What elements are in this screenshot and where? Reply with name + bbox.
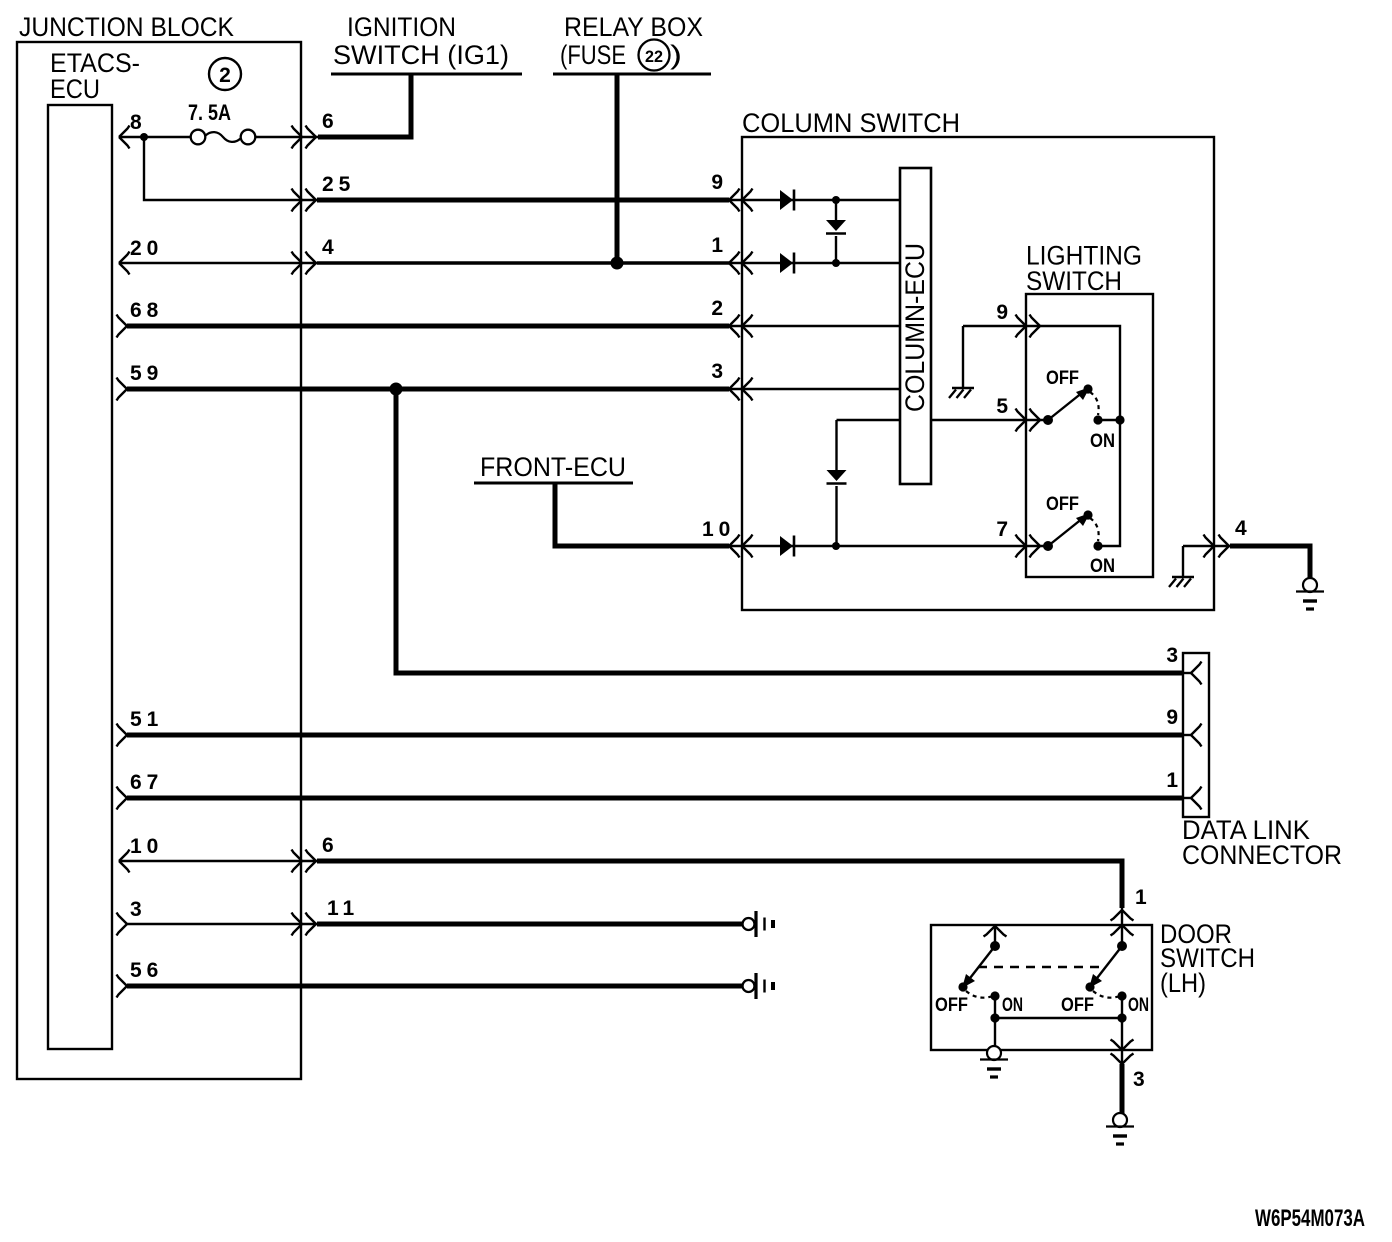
diode D5 vertical branch [835, 420, 837, 470]
wire 25 to column switch [317, 198, 729, 203]
pin 68 chevron [117, 315, 128, 338]
wire 67 to data link 1 [127, 796, 1183, 801]
svg-text:W6P54M073A: W6P54M073A [1255, 1205, 1365, 1232]
svg-text:9: 9 [711, 171, 723, 194]
diode D1 [780, 190, 793, 210]
svg-text:ON: ON [1128, 995, 1149, 1016]
wire 51 to data link 9 [127, 733, 1183, 738]
wire 59 branch down to data link 3 [396, 389, 1183, 673]
ground hatch g2 [1182, 546, 1184, 577]
node dsl [994, 996, 996, 1018]
svg-text:8: 8 [130, 111, 142, 134]
svg-text:SWITCH (IG1): SWITCH (IG1) [333, 40, 509, 70]
junction relay/wire4 [611, 257, 624, 270]
pin 25 chevrons [292, 189, 303, 212]
COLUMN-ECU box [900, 168, 931, 484]
pin 9 cs chevrons [729, 189, 740, 212]
svg-text:): ) [670, 40, 682, 70]
svg-text:OFF: OFF [1046, 368, 1079, 389]
svg-text:OFF: OFF [1046, 494, 1079, 515]
svg-text:IGNITION: IGNITION [347, 12, 456, 42]
node d4 [832, 542, 840, 550]
svg-text:9: 9 [996, 301, 1008, 324]
relay box underline [553, 73, 711, 76]
lighting switch SW2 [1043, 541, 1053, 551]
lighting switch box [1026, 294, 1153, 577]
diode D3 vertical between 9 and 1 [835, 200, 837, 220]
svg-text:3: 3 [1133, 1068, 1145, 1091]
svg-text:22: 22 [645, 47, 663, 66]
svg-text:68: 68 [130, 299, 163, 322]
wire 11 to connector [317, 922, 742, 927]
pin 6 chevrons [292, 126, 303, 149]
svg-text:RELAY BOX: RELAY BOX [564, 12, 703, 42]
ground earth right [1113, 1113, 1127, 1127]
svg-text:SWITCH: SWITCH [1026, 266, 1122, 296]
wire g2 to pin 4 [1183, 545, 1230, 547]
svg-text:67: 67 [130, 771, 163, 794]
svg-text:25: 25 [322, 173, 355, 196]
fuse symbol [191, 130, 206, 145]
svg-text:59: 59 [130, 362, 163, 385]
mech link dashed [978, 966, 1105, 968]
ground earth left [987, 1046, 1001, 1060]
door switch SW-L [990, 941, 1000, 951]
svg-text:3: 3 [130, 898, 142, 921]
svg-text:6: 6 [322, 110, 334, 133]
pin 2 cs chevrons [729, 315, 740, 338]
svg-text:(FUSE: (FUSE [560, 40, 626, 70]
svg-text:JUNCTION BLOCK: JUNCTION BLOCK [19, 12, 234, 42]
svg-text:10: 10 [702, 518, 735, 541]
wire 4 to ground [1230, 546, 1310, 578]
wire relay box down to wire 4 [615, 74, 620, 263]
pin 1 cs chevrons [729, 252, 740, 275]
pin 3 chevron [117, 913, 128, 936]
svg-text:ON: ON [1090, 556, 1115, 577]
diode D2 [780, 253, 793, 273]
node rail/on1 [1115, 415, 1124, 424]
dlc pin 1 contact [1183, 797, 1191, 799]
pin 56 chevron [117, 975, 128, 998]
diode D4 [780, 536, 793, 556]
lighting switch SW1 [1043, 415, 1053, 425]
ETACS-ECU box [48, 105, 112, 1049]
svg-text:6: 6 [322, 834, 334, 857]
door switch pin 1 arrow 2 [1111, 925, 1134, 936]
door switch box [931, 925, 1152, 1050]
pin 51 chevron [117, 724, 128, 747]
pin 8 arrow [119, 126, 130, 149]
wire 68 to column switch [127, 324, 729, 329]
wire front-ecu to pin 10 [555, 483, 729, 546]
svg-text:7: 7 [996, 518, 1008, 541]
wire dsr down [1121, 1018, 1123, 1064]
pin 7 chevrons [1016, 535, 1027, 558]
node dsr [1121, 996, 1123, 1018]
svg-text:5: 5 [996, 395, 1008, 418]
svg-text:FRONT-ECU: FRONT-ECU [480, 452, 626, 482]
svg-text:51: 51 [130, 708, 163, 731]
dlc pin 9 contact [1183, 734, 1191, 736]
wire branch to column-ecu [837, 419, 901, 421]
connector end wire 56 [743, 980, 755, 992]
svg-text:1: 1 [711, 234, 723, 257]
pin 5 chevrons [1016, 409, 1027, 432]
node pin8 branch [140, 133, 148, 141]
wire 10 cs [729, 545, 1044, 547]
connector end wire 11 [743, 918, 755, 930]
wire column-ecu to pin 5 [931, 419, 1044, 421]
door switch pin 1 arrow [1111, 910, 1134, 921]
door pin 3 chevrons [1111, 1040, 1134, 1051]
inner contact rail [1040, 326, 1120, 546]
ground hatch g1 [962, 326, 964, 388]
svg-text:ON: ON [1002, 995, 1023, 1016]
svg-text:ON: ON [1090, 431, 1115, 452]
pin 6b chevrons [292, 850, 303, 873]
wire pin 3 [127, 923, 318, 925]
svg-text:4: 4 [1235, 517, 1247, 540]
svg-text:CONNECTOR: CONNECTOR [1182, 840, 1342, 870]
wire dsl to ground [994, 1018, 996, 1046]
wire 6 to door switch [317, 861, 1122, 908]
svg-text:ECU: ECU [50, 74, 100, 104]
ground G1 earth [1303, 578, 1317, 592]
svg-text:OFF: OFF [935, 995, 968, 1016]
wire pin 20 [119, 262, 318, 264]
node 59 branch [390, 383, 403, 396]
wire pin1 into box [1121, 908, 1123, 946]
data link connector box [1183, 653, 1209, 817]
pin 10 arrow [119, 850, 130, 873]
pin 11 chevrons [292, 913, 303, 936]
door sw left arrow [984, 926, 1007, 937]
svg-text:OFF: OFF [1061, 995, 1094, 1016]
svg-text:20: 20 [130, 237, 163, 260]
pin 9 ls chevrons [1016, 315, 1027, 338]
wire g1 to pin 9 ls [963, 325, 1040, 327]
front-ecu underline [474, 482, 633, 485]
svg-text:1: 1 [1135, 886, 1147, 909]
svg-text:COLUMN SWITCH: COLUMN SWITCH [742, 108, 960, 138]
wire 2 cs [729, 325, 900, 327]
pin 20 arrow [119, 252, 130, 275]
wire fuse to pin 6 [256, 136, 319, 138]
junction block box [17, 42, 301, 1079]
wire 59 to column switch [127, 387, 729, 392]
svg-text:1: 1 [1166, 769, 1178, 792]
wire ignition to pin 6 [318, 74, 411, 137]
svg-text:9: 9 [1166, 706, 1178, 729]
wire pin 8 to fuse [119, 136, 191, 138]
pin 10 cs chevrons [729, 535, 740, 558]
pin 67 chevron [117, 787, 128, 810]
wire 8 to 25 elbow [144, 137, 318, 200]
ignition switch underline [331, 73, 522, 76]
wire 56 to connector [127, 984, 742, 989]
svg-text:10: 10 [130, 835, 163, 858]
svg-text:2: 2 [219, 64, 231, 87]
wire 3 cs [729, 388, 900, 390]
svg-text:3: 3 [1166, 644, 1178, 667]
column switch box [742, 137, 1214, 610]
dlc pin 3 contact [1183, 672, 1191, 674]
door sw left stem [994, 926, 996, 946]
wire 9 cs [729, 199, 900, 201]
wire pin 10 [119, 860, 318, 862]
svg-text:7. 5A: 7. 5A [188, 100, 231, 125]
pin 4 cs chevrons [1204, 535, 1215, 558]
door switch SW-R [1117, 941, 1127, 951]
node d1 [832, 196, 840, 204]
wire pin 3 ds to ground [1120, 1064, 1125, 1114]
wire 4 to column switch [317, 261, 729, 264]
pin 4 chevrons [292, 252, 303, 275]
svg-text:56: 56 [130, 959, 163, 982]
svg-text:(LH): (LH) [1160, 968, 1206, 998]
svg-text:4: 4 [322, 236, 334, 259]
node d2 [832, 259, 840, 267]
svg-text:3: 3 [711, 360, 723, 383]
wire link bottom [995, 1017, 1122, 1019]
wire 1 cs [729, 262, 900, 264]
pin 3 cs chevrons [729, 378, 740, 401]
fuse circled 2 label [209, 58, 241, 90]
svg-text:2: 2 [711, 297, 723, 320]
pin 59 chevron [117, 378, 128, 401]
svg-text:11: 11 [327, 897, 359, 920]
svg-text:COLUMN-ECU: COLUMN-ECU [900, 243, 930, 412]
fuse 22 circle [639, 40, 670, 71]
